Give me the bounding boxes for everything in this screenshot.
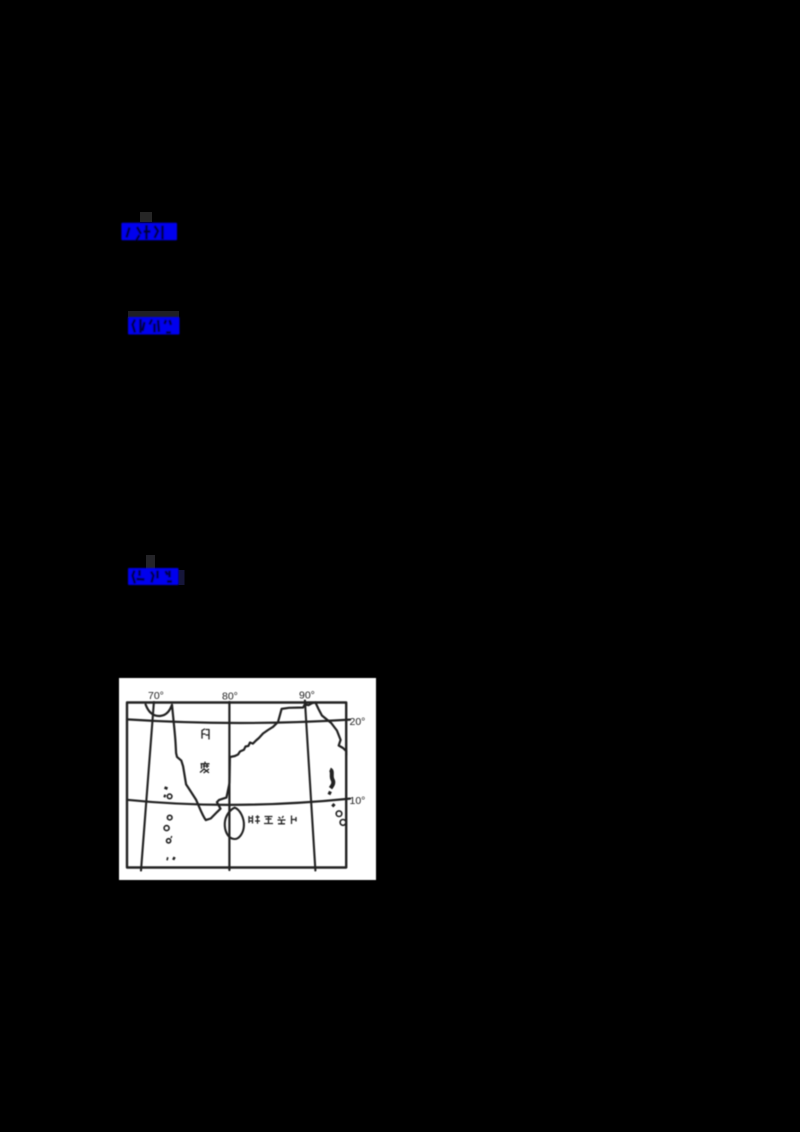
label 斯里兰卡 <box>249 815 297 824</box>
svg-text:20°: 20° <box>350 716 366 728</box>
islands west (Lakshadweep/Maldives) <box>164 788 175 860</box>
svg-text:10°: 10° <box>350 795 366 807</box>
label 度 <box>200 762 210 773</box>
parallel 20N <box>127 719 350 723</box>
svg-text:70°: 70° <box>148 690 164 702</box>
Sri Lanka <box>225 808 244 839</box>
parallel 10N <box>127 799 350 805</box>
islands east (Andaman/Nicobar) <box>328 770 346 826</box>
blue label 2 【解答】 <box>124 306 188 340</box>
graticule degree labels <box>148 690 365 808</box>
label 印 <box>202 729 210 740</box>
India coastline <box>146 702 347 820</box>
svg-text:90°: 90° <box>299 690 315 702</box>
blue label 1 【分析】 <box>118 210 188 244</box>
map figure <box>119 678 376 880</box>
frame <box>127 703 346 868</box>
meridian 80E <box>228 702 230 870</box>
svg-text:80°: 80° <box>222 691 238 703</box>
meridian 90E <box>305 701 316 871</box>
meridian 70E <box>141 702 154 871</box>
blue label 3 【点评】 <box>124 553 190 591</box>
